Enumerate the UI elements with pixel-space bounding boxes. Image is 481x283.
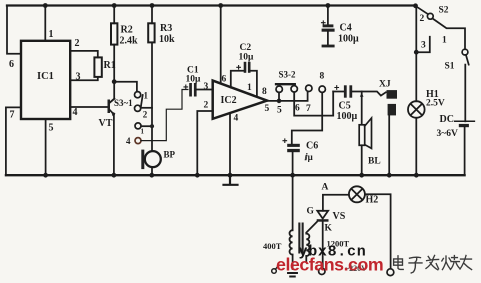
svg-text:100μ: 100μ [338, 34, 359, 45]
svg-text:4: 4 [126, 136, 131, 146]
wire R3 bottom to BP microphone [151, 42, 153, 150]
svg-text:R1: R1 [104, 60, 116, 71]
wire battery to ground rail [464, 127, 466, 175]
wire IC2 pin6 to top rail [220, 6, 222, 84]
capacitor C2 [237, 62, 251, 73]
wire IC1 pin5 to ground rail [45, 119, 47, 175]
watermark chinese 电子发烧友 [394, 255, 472, 273]
svg-text:1: 1 [442, 36, 447, 46]
switch S1 contact [462, 49, 468, 55]
node C6-rail [290, 173, 295, 178]
ground symbol mains [288, 273, 297, 277]
svg-text:IC2: IC2 [221, 95, 237, 106]
lamp H2 [349, 186, 365, 202]
op-amp IC2 [213, 81, 267, 119]
switch S3-1 contact 2 [135, 105, 141, 111]
svg-text:2.5V: 2.5V [426, 99, 445, 109]
wire BL top [361, 92, 363, 125]
svg-text:S2: S2 [439, 6, 449, 16]
capacitor C1 [184, 83, 197, 97]
node BL junction [360, 93, 364, 97]
svg-text:XJ: XJ [379, 80, 391, 90]
watermark char zi [409, 257, 422, 273]
node S2 contact3 junction [414, 50, 419, 55]
svg-text:C5: C5 [339, 101, 351, 112]
svg-text:BL: BL [368, 157, 381, 167]
svg-text:400T: 400T [263, 241, 282, 251]
svg-text:IC1: IC1 [37, 71, 54, 82]
svg-text:7: 7 [10, 110, 15, 121]
wire C5 to jack XJ [352, 92, 385, 96]
switch S3-2 blade [276, 83, 295, 85]
wire XJ to ground rail [388, 115, 390, 175]
lamp H1 [408, 101, 425, 118]
speaker BL [359, 118, 371, 148]
node top rail right end [413, 3, 418, 8]
svg-text:C6: C6 [306, 141, 318, 152]
wire R3 top [151, 6, 153, 24]
svg-text:G: G [307, 207, 315, 217]
node output junction [277, 99, 282, 104]
node collector junction [112, 79, 117, 84]
transformer T core [298, 223, 303, 254]
svg-text:S3-2: S3-2 [279, 70, 297, 80]
wire rail end to S2 contact [416, 6, 428, 14]
transformer secondary winding 1200T [306, 234, 309, 256]
svg-text:5: 5 [265, 104, 270, 114]
wire IC1 pin1 [44, 6, 46, 42]
node R2-rail [112, 3, 117, 8]
terminal mains left [272, 266, 279, 274]
node BP-rail [149, 173, 154, 178]
watermark char dian [394, 256, 404, 270]
node pin1-rail [43, 3, 48, 8]
wire C5 left lead [333, 91, 343, 93]
svg-text:2.4k: 2.4k [120, 36, 139, 47]
wire BP bottom to ground rail [151, 167, 153, 175]
svg-text:5: 5 [277, 106, 282, 116]
wire IC1 pin7 to ground rail [6, 107, 21, 175]
svg-text:6: 6 [222, 75, 227, 85]
svg-text:DC: DC [440, 114, 454, 125]
node pin5-rail [43, 173, 48, 178]
node H1-rail [414, 173, 419, 178]
svg-text:R3: R3 [160, 23, 172, 34]
wire secondary bottom stub [305, 256, 307, 262]
switch S3-1 blade [141, 95, 143, 107]
wire VS cathode K to terminal [322, 222, 324, 267]
resistor R3 [148, 23, 154, 42]
wire S3-1 contact3 stub [141, 125, 152, 127]
svg-text:1: 1 [247, 83, 252, 93]
wire S3-1 contact4 to C1 [141, 90, 188, 141]
ground symbol [224, 175, 238, 185]
svg-text:4: 4 [73, 107, 78, 118]
svg-text:10k: 10k [159, 34, 175, 45]
svg-text:8: 8 [320, 72, 325, 82]
terminal H2 circle [387, 269, 394, 276]
switch S3-2 contact 8 [319, 86, 325, 92]
svg-text:C2: C2 [240, 43, 252, 53]
svg-text:VT: VT [99, 118, 113, 129]
wire C2 left lead [231, 71, 243, 88]
node BL-rail [359, 173, 364, 178]
switch S3-1 contact 3 [135, 123, 141, 129]
node pin4-rail [228, 173, 233, 178]
terminal K circle [319, 268, 325, 274]
wire IC2 output pin5 [267, 91, 308, 101]
switch S3-2 contact 7 [306, 85, 312, 91]
wire primary bottom to ground [292, 255, 294, 269]
node R3-rail [150, 3, 155, 8]
svg-text:1: 1 [144, 91, 149, 101]
wire S2 contact 3 stub [416, 37, 430, 52]
switch S2 blade [432, 18, 465, 49]
svg-text:2: 2 [75, 38, 80, 49]
svg-text:1: 1 [141, 128, 145, 136]
wire C2 right lead to pin1 [251, 71, 257, 97]
switch S3-2 contact 6 [291, 86, 297, 92]
svg-text:10μ: 10μ [186, 75, 202, 85]
wire IC2 pin4 to ground rail [229, 113, 231, 175]
microphone BP [141, 150, 161, 170]
wire contact6 to C5 [294, 92, 333, 116]
wire C6 bottom to ground rail [292, 152, 294, 175]
svg-text:H2: H2 [366, 195, 379, 206]
resistor R1 [94, 57, 101, 77]
svg-text:8: 8 [262, 87, 267, 97]
watermark char fa [426, 255, 439, 269]
wire R2 top [113, 6, 115, 24]
wire top supply rail [7, 4, 416, 6]
svg-text:K: K [325, 224, 333, 234]
svg-text:R2: R2 [121, 25, 133, 36]
wire right branch down [415, 6, 417, 101]
wire R2 bottom to VT collector [110, 45, 114, 103]
svg-text:3: 3 [421, 41, 426, 51]
switch S3-1 contact 4 [135, 138, 141, 144]
node pin2-rail [195, 173, 200, 178]
svg-text:5: 5 [49, 123, 54, 134]
switch S3-1 contact 1 [135, 92, 141, 98]
capacitor C5 [335, 85, 352, 97]
svg-text:S1: S1 [445, 62, 455, 72]
switch S1 blade [466, 55, 469, 65]
svg-text:A: A [322, 183, 329, 193]
svg-text:2: 2 [420, 14, 425, 24]
battery DC 3~6V [455, 121, 475, 127]
wire C1 to IC2 pin3 [197, 89, 213, 91]
wire S3-1 contact2 stub [141, 107, 152, 109]
wire collector node to S3-1 contact1 [114, 82, 137, 92]
transformer primary winding 400T [290, 230, 293, 254]
switch S3-2 contact 5 [276, 86, 282, 92]
svg-text:6: 6 [9, 59, 14, 70]
node contact3 junction [150, 124, 154, 128]
svg-text:3~6V: 3~6V [437, 129, 458, 139]
IC1 box [21, 41, 70, 119]
svg-text:10μ: 10μ [239, 53, 255, 63]
svg-text:2: 2 [204, 101, 209, 111]
wire IC1 pin6 to top rail [7, 6, 21, 54]
node pin6-rail [218, 3, 223, 8]
wire VS gate to transformer [306, 222, 317, 233]
watermark char you [460, 256, 472, 270]
thyristor VS [317, 211, 329, 222]
wire H1 to ground rail [415, 118, 417, 175]
node XJ-rail [387, 173, 392, 178]
svg-text:VS: VS [333, 211, 346, 222]
svg-text:3: 3 [76, 72, 81, 83]
wire IC1 pin2 to R1 [70, 51, 98, 58]
wire BL bottom to ground rail [361, 145, 363, 175]
wire R1 to IC1 pin3 [70, 77, 98, 80]
svg-text:1: 1 [49, 29, 54, 40]
wire H2 to terminal [365, 194, 391, 268]
resistor R2 [111, 23, 117, 44]
svg-text:100μ: 100μ [337, 111, 358, 122]
switch S2 contact 2 [427, 13, 433, 19]
svg-text:ⅈμ: ⅈμ [305, 152, 313, 162]
svg-text:elecfans.com: elecfans.com [276, 254, 383, 274]
wire primary top [292, 175, 294, 230]
jack XJ plug [387, 90, 398, 115]
wire IC1 pin4 to VT base [70, 106, 107, 108]
wire S1 to battery [464, 65, 466, 122]
wire contact8 to C6 [292, 92, 322, 143]
watermark char shao [442, 256, 460, 270]
wire bottom ground rail [6, 174, 465, 176]
wire IC2 pin2 to ground rail [197, 111, 212, 175]
wire output node to S3-2 contact5 [278, 92, 280, 101]
svg-text:S3~1: S3~1 [114, 98, 133, 108]
node C4-rail [326, 3, 331, 8]
svg-text:7: 7 [306, 104, 311, 114]
svg-text:6: 6 [295, 104, 300, 114]
svg-text:4: 4 [234, 114, 239, 124]
svg-text:3: 3 [204, 82, 209, 92]
svg-text:BP: BP [164, 150, 176, 160]
node emitter-rail [112, 173, 117, 178]
svg-text:2: 2 [143, 110, 148, 120]
svg-text:C4: C4 [340, 23, 352, 34]
wire C4 top [327, 6, 329, 25]
wire VT emitter to ground rail [113, 114, 115, 175]
transistor VT [108, 99, 116, 117]
capacitor C6 [283, 139, 300, 152]
wire anode corner to H2 [323, 195, 349, 211]
capacitor C4 [322, 21, 335, 47]
